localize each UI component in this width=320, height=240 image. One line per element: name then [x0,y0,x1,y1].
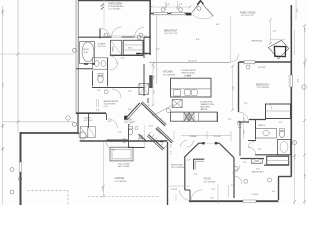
tick marks dimension slashes [1,6,306,204]
svg-text:4'-2": 4'-2" [169,151,171,155]
mini dim column bath2 [243,114,245,139]
svg-text:14'-2": 14'-2" [303,28,305,33]
svg-text:9'-0" CEILING: 9'-0" CEILING [204,182,216,184]
svg-text:3'-0": 3'-0" [296,9,298,13]
dim line garage center [102,142,104,196]
svg-text:2'-8": 2'-8" [146,105,150,107]
driveway dashed line [88,196,160,198]
wall under shower row [110,55,143,57]
dim line breakfast right [230,16,232,62]
window sill dash bedroom2 [288,75,290,87]
svg-text:2'-6": 2'-6" [273,31,277,33]
door arc garage front [106,141,115,150]
wall stub bedroom3 [99,29,101,39]
svg-text:3'-2": 3'-2" [152,65,154,69]
toilet bath2 [279,130,284,137]
wall hall bath2 left [239,122,241,156]
svg-text:3'-2": 3'-2" [304,58,306,62]
corner door swing arc [193,15,213,19]
vanity bath2 [256,129,277,139]
kitchen west line lower [156,62,158,84]
patio column bottom [73,122,77,126]
svg-text:2'-4": 2'-4" [212,189,216,191]
svg-text:10'-0": 10'-0" [101,187,103,192]
svg-text:22'-6": 22'-6" [1,83,3,88]
foyer left wall [128,124,130,148]
window sill dashes breakfast [152,15,187,17]
window breakfast 2 [171,12,185,14]
wall bedroom2 left [238,62,240,112]
wall bedroom2 bottom left part [239,121,250,123]
svg-text:9'-0" CEILING: 9'-0" CEILING [115,181,127,183]
svg-text:5'-0": 5'-0" [256,169,260,171]
svg-text:2'-2": 2'-2" [156,49,160,51]
door arc bath2 hall [248,141,255,148]
svg-text:6'-0": 6'-0" [216,24,220,26]
door arc powder [129,121,136,128]
door arc bedroom3 [101,29,111,39]
svg-text:3'-8": 3'-8" [231,185,235,187]
top dimension ticks [151,6,190,8]
linen hatched master [139,84,149,95]
powder toilet [128,129,132,135]
svg-text:SHWR: SHWR [111,46,113,53]
front door arc [180,190,191,201]
circles front hall [122,139,126,143]
svg-text:31'-0": 31'-0" [1,11,3,16]
wall stub above foyer peak [147,98,149,103]
corner door jamb top dark [197,0,203,4]
patio column top [73,48,77,52]
svg-text:16'-0": 16'-0" [187,75,192,77]
svg-text:3'-6": 3'-6" [228,119,232,121]
dimension extension line left vertical [17,0,19,132]
garage front wall [80,140,168,142]
master vanity [93,58,108,69]
svg-text:9'-0" CEILING: 9'-0" CEILING [109,9,121,11]
foyer NE diagonal [141,103,165,126]
svg-text:8'-4": 8'-4" [152,76,154,80]
cabinet hatched cells [184,112,194,121]
circles left dim [10,168,14,172]
wc room walls [92,71,94,87]
circle right wall [302,85,306,89]
circle kitchen diagonal [166,108,170,112]
window bottom wall [243,200,256,202]
powder diagonal wall [139,134,148,141]
svg-text:4'-8": 4'-8" [196,39,200,41]
svg-text:6'-4": 6'-4" [238,127,242,129]
master hall wall [92,87,144,89]
powder sink [135,126,138,129]
wall tub nook bottom [76,68,93,70]
dim line bed2 [232,66,234,110]
dim line left col bottom [2,6,4,205]
gallery double doors arcs [181,141,188,148]
wall bath2 lower left stub [248,140,256,142]
door arcs bedroom3 bottom wall [112,27,122,37]
svg-text:GRDN: GRDN [83,49,89,51]
wall house bottom [189,200,279,202]
wall bath2 top [249,119,266,121]
dark jamb marks wic hall [84,54,164,142]
door arcs bed3 bottom [191,190,202,201]
window breakfast 1 [154,12,168,14]
foyer NW diagonal [126,103,140,119]
circle master hall [104,90,108,94]
wall bedroom3 top edge [78,0,151,2]
circles bed3 [234,167,238,171]
wall bed3 closet bottom [264,164,289,166]
svg-text:3'-0": 3'-0" [166,4,170,6]
master block left exterior wall [75,0,77,114]
svg-text:9'-0" CEILING: 9'-0" CEILING [257,87,269,89]
wall bath2 bottom [255,154,290,156]
garage window left [19,162,22,172]
svg-text:ATTIC STAIR: ATTIC STAIR [118,165,130,168]
dim line kitchen left [152,64,154,105]
vanity sink 1 [94,61,99,67]
circle bed2 door [238,121,242,125]
wall family room bottom [239,61,291,63]
utility jut wall [77,113,79,133]
AC circle on garage wall [79,132,86,139]
study NE diagonal [219,143,234,157]
svg-text:3'-0": 3'-0" [179,4,183,6]
circle garage wall [18,177,22,181]
svg-text:5'-4": 5'-4" [128,109,132,111]
pantry south diagonal [148,135,164,150]
corner door jamb left dark [186,13,192,16]
svg-text:4'-0": 4'-0" [272,191,276,193]
wall study SW corner [185,189,190,191]
corner door panel NE [203,4,213,16]
window family south [244,61,255,63]
wall family room right exterior [290,5,292,177]
svg-text:2'-6": 2'-6" [96,110,100,112]
svg-text:11'-8 3/4": 11'-8 3/4" [214,136,222,138]
breakfast left wall [149,14,151,56]
room label third bedroom [108,3,125,11]
svg-text:4'-6": 4'-6" [121,58,125,60]
wall study right [233,158,235,199]
svg-text:8'-0": 8'-0" [293,156,295,160]
ticks bedroom3 dim [101,4,104,10]
garden tub oval [82,42,94,62]
master hall right wall [143,37,145,58]
foyer NE diagonal pair [142,102,166,125]
svg-text:3'-0": 3'-0" [169,144,171,148]
master block bottom wall [76,112,106,114]
vanity sink 2 [101,61,106,67]
cabinet wall right stub [216,112,218,122]
svg-text:11'-0 3/4": 11'-0 3/4" [258,67,266,69]
washer dryer boxes [80,127,88,138]
door arc bedroom2 [239,112,249,122]
svg-text:12'-8": 12'-8" [303,63,305,68]
svg-text:BATH 2: BATH 2 [259,124,266,127]
svg-text:5'-0": 5'-0" [210,198,214,200]
closet door arc [266,104,272,110]
circles bedroom3 wall [104,33,108,37]
svg-text:2'-0": 2'-0" [192,136,196,138]
svg-text:CLG: CLG [104,106,108,108]
wall bedroom3 right [149,0,151,14]
svg-text:2'-4": 2'-4" [243,162,247,164]
wall breakfast top [150,13,191,15]
svg-text:9'-4 3/4": 9'-4 3/4" [252,194,259,196]
svg-text:11'-6": 11'-6" [232,86,234,91]
garden tub deck [80,42,95,64]
svg-text:8'-2": 8'-2" [258,149,262,151]
fridge dark box [149,75,152,88]
svg-text:6'-0": 6'-0" [152,90,154,94]
svg-text:W.I.C.: W.I.C. [128,48,134,50]
svg-text:9'-0" CEILING: 9'-0" CEILING [163,75,175,77]
tub bath2 [278,140,291,156]
svg-text:8'-0": 8'-0" [1,125,3,129]
svg-text:6'-8": 6'-8" [108,121,112,123]
dimension line patio bottom [3,121,74,123]
closet bed3 right [267,156,289,164]
corner door panel NW [192,1,201,12]
svg-text:12'-0" CLG: 12'-0" CLG [124,122,134,124]
svg-text:3'-0": 3'-0" [97,90,101,92]
dimension line patio top [0,53,74,55]
svg-text:GARAGE: GARAGE [115,177,125,180]
closet rod line [266,110,291,112]
window bedroom2 right [290,75,293,87]
foyer jamb dark [124,116,127,120]
wall bed3 right step h [278,176,292,178]
dim line bedroom3 interior [103,0,105,29]
svg-text:3'-0": 3'-0" [118,132,122,134]
cabinet bank dining [170,112,217,121]
wall bedroom3/bath bottom [79,36,112,38]
front hall walls [107,139,129,141]
svg-text:12'-4": 12'-4" [303,174,305,179]
garage top wall [20,132,79,134]
svg-text:10'-0" CEILING: 10'-0" CEILING [171,167,184,169]
toilet master [98,75,103,83]
shower master [110,40,121,55]
circle left of utility [66,116,70,120]
garage right wall [167,142,169,205]
study top wall [199,142,204,144]
fireplace dim lines [269,20,271,44]
svg-text:8'-0" CLG: 8'-0" CLG [84,120,93,122]
svg-text:9'-0" CLG. TYP: 9'-0" CLG. TYP [241,15,254,17]
kitchen corner diagonal [152,105,174,117]
wic2 top wall [136,53,151,55]
wall bed3 right step v [278,177,280,201]
garage tray dashed rect [28,191,69,205]
circle powder [139,135,143,139]
window sill family [243,63,256,65]
sink bath2 [263,130,269,135]
pantry south pair [147,136,163,151]
svg-text:2'-8": 2'-8" [187,160,191,162]
utility walls [88,114,90,129]
pantry shelf rungs [148,132,166,149]
svg-text:ABOVE: ABOVE [201,108,208,111]
svg-text:BEDROOM 3: BEDROOM 3 [252,172,265,174]
svg-text:9'-8 1/2": 9'-8 1/2" [171,189,178,191]
wall kitchen top thin [149,61,230,63]
svg-text:STUDY: STUDY [204,178,212,181]
circles breakfast windows [161,8,165,12]
wall study left [184,158,186,191]
kitchen island [171,78,212,97]
svg-text:5'-0": 5'-0" [296,79,298,83]
extra small dim marks center hall [97,30,295,204]
closet bedroom2 [266,104,291,119]
kitchen counter line west [156,16,158,63]
fireplace diamond [268,40,288,58]
pantry north diagonal [156,128,172,143]
powder bottom wall [128,147,145,149]
svg-text:KITCHEN: KITCHEN [163,71,173,74]
svg-text:4'-0": 4'-0" [1,148,3,152]
svg-text:2'-0": 2'-0" [242,118,244,122]
svg-text:5'-0": 5'-0" [194,174,198,176]
utility door arc [108,119,117,128]
svg-text:2'-0": 2'-0" [279,122,283,124]
svg-text:FOYER: FOYER [124,118,132,121]
wall bed3 hall top [240,158,264,160]
svg-text:5'-6": 5'-6" [128,91,132,93]
linen closet hatched [251,159,262,164]
study NW diagonal [184,143,199,157]
study door jambs dark [202,142,204,144]
island sink [185,90,191,96]
svg-text:DOUBLE DEPTH: DOUBLE DEPTH [181,70,197,72]
niche study left [194,159,205,169]
svg-text:12'-0": 12'-0" [149,126,154,128]
pantry north pair [157,127,173,142]
circle family window [246,65,250,69]
svg-text:26'-10 1/2": 26'-10 1/2" [188,61,197,63]
door arcs master bath [109,56,117,64]
dim line foyer stoop [144,125,146,148]
dim line right col [304,25,306,205]
ah platform hatched [172,100,182,108]
wic master [123,40,143,55]
svg-text:2'-6": 2'-6" [244,103,248,105]
dim line right inner [294,140,296,205]
svg-text:9'-0" CLG. TYP: 9'-0" CLG. TYP [165,33,178,35]
wall bath2 mid vertical [255,120,257,140]
svg-text:9'-0" CLG: 9'-0" CLG [98,46,107,48]
stoop attic stair rect [110,147,133,161]
svg-text:5'-8": 5'-8" [242,131,244,135]
door arc family passage [231,54,239,62]
dw box [174,90,181,96]
garage left wall [20,132,22,205]
svg-text:FIREPLACE: FIREPLACE [252,40,263,43]
